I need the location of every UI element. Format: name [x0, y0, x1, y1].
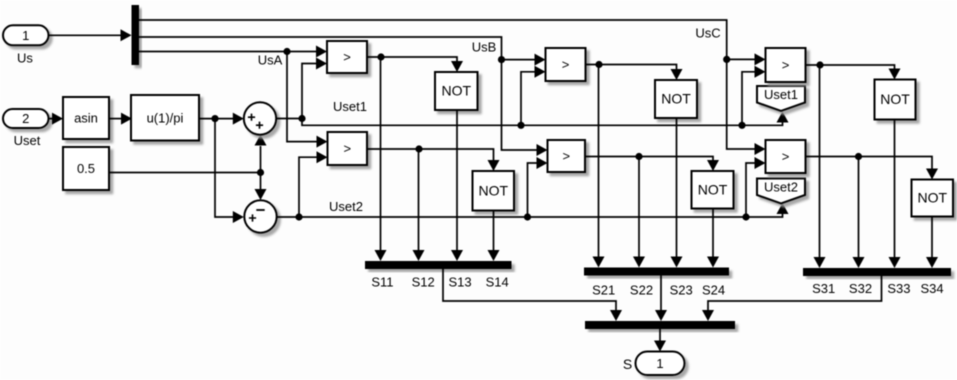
svg-text:S: S [623, 356, 632, 372]
wire Uset2: sum2 output line [277, 203, 789, 221]
logic NOT32 [912, 180, 954, 217]
wire UsA line from demux to b1 [139, 46, 327, 58]
logic NOT11 [435, 72, 478, 110]
wire Uset1 riser to b31 lower input [742, 66, 766, 126]
wire mux3 output to final mux [702, 276, 882, 321]
block constant 0.5 [63, 147, 109, 190]
block Fcn u(1)/pi [131, 95, 199, 141]
wire b22 output to NOT22 and S22 [585, 153, 719, 171]
svg-text:0.5: 0.5 [77, 161, 95, 176]
svg-text:NOT: NOT [478, 182, 508, 198]
svg-text:Uset2: Uset2 [329, 199, 363, 214]
mux final (S) [585, 321, 735, 329]
svg-text:UsC: UsC [695, 26, 720, 41]
wire NOT31 output S33 drop to mux3 [889, 120, 901, 269]
comparator b2 (UsA>Uset2) [328, 132, 368, 165]
wire mux1 output to final mux [443, 269, 622, 321]
svg-text:UsB: UsB [472, 40, 497, 55]
wire NOT21 output S14 drop to mux1 [488, 211, 500, 262]
svg-text:S21: S21 [592, 283, 615, 298]
svg-text:UsA: UsA [258, 53, 283, 68]
svg-text:S13: S13 [449, 275, 472, 290]
wire S32 drop to mux3 [853, 157, 865, 269]
logic NOT22 [692, 171, 734, 209]
tag goto Uset1 [757, 86, 805, 111]
logic NOT31 [875, 80, 916, 120]
svg-text:Uset2: Uset2 [764, 180, 798, 195]
wire UsC line from demux [139, 20, 766, 155]
svg-text:>: > [343, 50, 351, 65]
svg-text:S31: S31 [812, 281, 835, 296]
svg-text:2: 2 [22, 111, 29, 126]
wire 0.5 output line [109, 169, 264, 176]
svg-text:>: > [782, 149, 790, 164]
wire mux2 output to final mux [655, 276, 667, 322]
wire S31 drop to mux3 [814, 65, 826, 268]
wire b32 output to NOT32 and S32 [806, 153, 939, 180]
svg-text:1: 1 [22, 28, 29, 43]
block asin [63, 97, 109, 139]
comparator b31 (UsC>Uset1) [766, 48, 806, 82]
mux2 (S21-S24) [584, 268, 729, 276]
wire Uset2 riser to b22 lower input [528, 157, 548, 217]
svg-text:S33: S33 [887, 281, 910, 296]
wire UsA branch down to b2 [287, 52, 328, 148]
svg-text:1: 1 [656, 356, 663, 371]
svg-text:>: > [562, 149, 570, 164]
tag goto Uset2 [757, 179, 805, 204]
svg-text:>: > [782, 58, 790, 73]
sum block Sum1 (++) [244, 102, 276, 134]
svg-text:S32: S32 [849, 281, 872, 296]
comparator b21 (UsB>Uset1) [546, 48, 586, 81]
wire asin to u(1)/pi [109, 113, 132, 125]
wire S11 drop to mux1 [375, 57, 387, 261]
wire Uset1 riser to b21 lower input [521, 66, 546, 126]
wire b2 output to NOT21 and S12 [367, 145, 500, 171]
wire NOT11 output S13 drop to mux1 [451, 110, 463, 261]
wire UsB branch to comparator b21 [502, 54, 546, 66]
svg-text:S22: S22 [630, 283, 653, 298]
svg-text:Uset1: Uset1 [333, 99, 367, 114]
wire Uset2 riser to b2 lower input [299, 151, 328, 217]
outport 1 (S) [636, 352, 685, 376]
svg-text:Uset1: Uset1 [764, 87, 798, 102]
svg-text:NOT: NOT [698, 181, 728, 197]
wire u(1)/pi output to sum1 and sum2 [200, 115, 244, 223]
wire S12 drop to mux1 [413, 149, 425, 261]
inport 2 (Uset) [3, 109, 49, 128]
wire b31 output to NOT31 and S31 [806, 61, 901, 79]
svg-text:u(1)/pi: u(1)/pi [147, 110, 184, 125]
logic NOT21 [473, 171, 515, 211]
wire NOT22 output S24 drop to mux2 [707, 209, 719, 268]
comparator b1 (UsA>Uset1) [327, 41, 367, 73]
wire S21 drop to mux2 [593, 65, 605, 268]
wire UsB line from demux [139, 37, 548, 156]
svg-text:>: > [562, 57, 570, 72]
svg-text:Us: Us [17, 51, 33, 66]
demux (3-way splitter bar) [132, 5, 140, 65]
svg-text:NOT: NOT [880, 91, 910, 107]
wire 0.5 branch down to sum2 [255, 173, 267, 201]
wire b1 output to NOT11 and S11 [367, 53, 463, 72]
svg-text:NOT: NOT [441, 83, 471, 99]
wire Uset1 riser to b1 lower input [302, 58, 327, 119]
wire NOT32 output S34 drop to mux3 [926, 217, 938, 269]
svg-text:S34: S34 [921, 281, 944, 296]
svg-text:S12: S12 [412, 275, 435, 290]
wire NOT12 output S23 drop to mux2 [671, 118, 683, 268]
svg-text:asin: asin [74, 111, 98, 126]
sum block Sum2 (-+) [244, 200, 276, 232]
wire u(1)/pi to sum1 left [215, 113, 244, 125]
svg-text:Uset: Uset [14, 133, 41, 148]
wire S22 drop to mux2 [633, 157, 645, 268]
svg-text:S24: S24 [702, 283, 725, 298]
svg-text:S23: S23 [670, 283, 693, 298]
svg-text:NOT: NOT [917, 190, 947, 206]
svg-text:S14: S14 [486, 275, 509, 290]
svg-text:NOT: NOT [661, 91, 691, 107]
svg-text:S11: S11 [371, 275, 393, 290]
comparator b22 (UsB>Uset2) [548, 140, 586, 172]
inport 1 (Us) [3, 25, 49, 45]
wire 0.5 branch up to sum1 [255, 135, 267, 173]
wire UsC branch to comparator b31 [727, 53, 766, 65]
wire final mux output to outport S [654, 329, 666, 352]
logic NOT12 [655, 80, 697, 118]
wire b21 output to NOT12 and S21 [586, 61, 683, 80]
wire Uset: inport2 to asin [49, 113, 64, 125]
wire Uset1: sum1 output line [276, 112, 788, 129]
mux3 (S31-S34) [803, 268, 951, 276]
comparator b32 (UsC>Uset2) [766, 140, 806, 173]
wire Uset2 riser to b32 lower input [746, 157, 766, 217]
mux1 (S11-S14) [365, 261, 512, 269]
svg-text:>: > [343, 141, 351, 156]
wire Us: inport1 to demux [49, 29, 132, 41]
